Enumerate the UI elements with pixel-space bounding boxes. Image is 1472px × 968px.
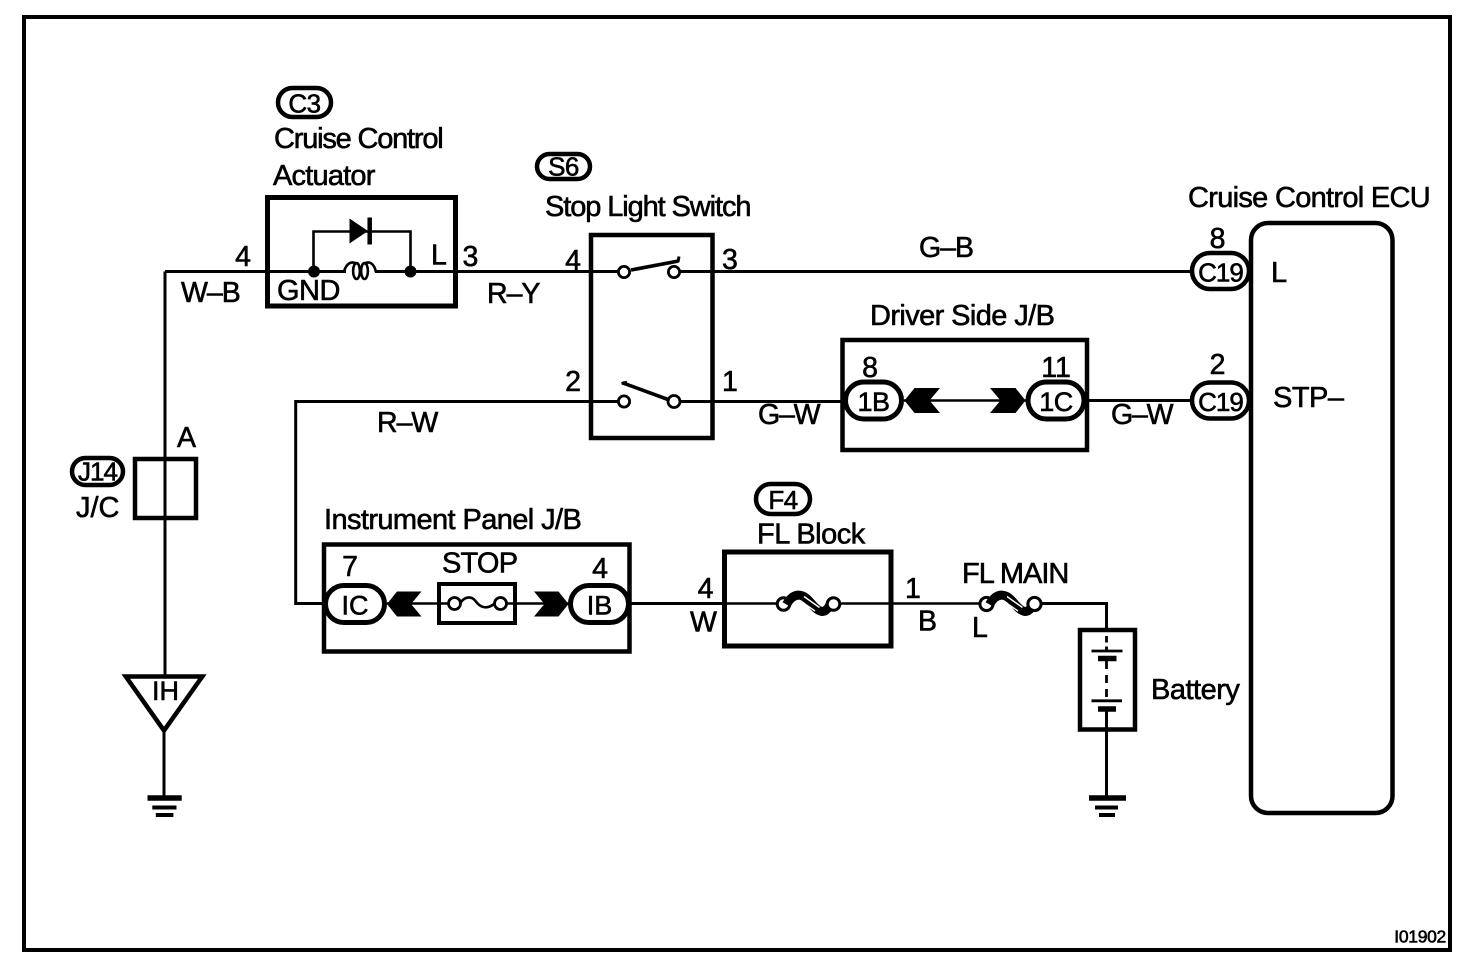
svg-text:R–W: R–W xyxy=(377,407,438,439)
wire FL MAIN to battery xyxy=(1041,604,1107,633)
wire battery to ground xyxy=(1105,710,1108,796)
svg-text:G–B: G–B xyxy=(919,232,973,264)
ground symbol (IH) xyxy=(148,798,182,815)
svg-text:Stop Light Switch: Stop Light Switch xyxy=(545,191,750,223)
switch lower contact circles xyxy=(618,396,629,407)
battery box xyxy=(1080,630,1135,730)
fusible link FL MAIN xyxy=(980,595,1041,611)
svg-text:Cruise Control: Cruise Control xyxy=(274,123,443,155)
connector oval IC xyxy=(326,586,385,623)
arrow right (to IB) xyxy=(534,592,569,617)
arrow left (to IC) xyxy=(387,592,422,617)
diode D (in actuator) xyxy=(350,218,370,245)
svg-text:W: W xyxy=(690,607,717,639)
svg-text:3: 3 xyxy=(463,241,479,273)
wire IH to ground xyxy=(163,730,166,796)
connector oval 1C xyxy=(1028,382,1084,419)
fusible link (FL block) xyxy=(777,595,840,611)
wire through IP J/B xyxy=(387,602,450,605)
instrument panel J/B box xyxy=(324,545,630,652)
connector label C3 xyxy=(278,88,331,119)
svg-text:1: 1 xyxy=(722,366,738,398)
svg-text:J/C: J/C xyxy=(76,492,120,524)
wire W-B vertical down to J/C xyxy=(164,272,167,677)
svg-text:4: 4 xyxy=(565,245,581,277)
svg-text:8: 8 xyxy=(1210,223,1226,255)
wire inside actuator (left segment) xyxy=(267,270,346,273)
wire FL block to FL MAIN xyxy=(891,602,980,605)
svg-text:L: L xyxy=(972,612,988,644)
wire R-W from pin 2 xyxy=(296,402,618,604)
component title Cruise Control Actuator xyxy=(273,123,443,192)
FL block box xyxy=(725,552,892,646)
wire from upper switch right (G-B) xyxy=(680,270,1191,273)
battery top dashed lead xyxy=(1105,636,1108,650)
switch upper lever xyxy=(631,261,679,270)
svg-text:4: 4 xyxy=(698,573,714,605)
connector oval C19 bottom xyxy=(1192,383,1249,419)
svg-text:J14: J14 xyxy=(78,457,117,487)
wire inside actuator (right segment) xyxy=(375,270,458,273)
node right junction dot xyxy=(405,266,417,278)
svg-text:B: B xyxy=(918,606,937,638)
svg-text:1C: 1C xyxy=(1039,387,1073,417)
connector oval C19 top xyxy=(1192,253,1249,289)
battery dashed center line xyxy=(1105,661,1108,697)
battery plate short thick top xyxy=(1098,656,1117,662)
svg-text:8: 8 xyxy=(862,352,878,384)
svg-text:C19: C19 xyxy=(1198,258,1243,288)
ground symbol (battery) xyxy=(1089,798,1126,815)
svg-text:R–Y: R–Y xyxy=(487,278,540,310)
svg-text:4: 4 xyxy=(235,241,251,273)
svg-text:2: 2 xyxy=(1210,349,1226,381)
svg-text:Cruise Control ECU: Cruise Control ECU xyxy=(1188,182,1430,214)
svg-text:G–W: G–W xyxy=(1111,399,1174,431)
connector label S6 xyxy=(537,152,590,182)
fuse STOP box xyxy=(439,584,515,623)
svg-text:IH: IH xyxy=(152,676,179,706)
switch upper contact circles xyxy=(618,266,629,277)
svg-text:A: A xyxy=(177,422,196,454)
switch lower lever xyxy=(623,383,669,400)
connector label F4 xyxy=(756,484,810,515)
svg-text:S6: S6 xyxy=(548,152,579,182)
svg-text:GND: GND xyxy=(277,275,340,307)
stop light switch box xyxy=(591,235,713,438)
svg-text:I01902: I01902 xyxy=(1394,927,1446,947)
driver side J/B box xyxy=(843,340,1088,450)
svg-text:1: 1 xyxy=(905,573,921,605)
svg-text:C3: C3 xyxy=(288,89,320,119)
ground triangle IH xyxy=(126,677,203,731)
svg-text:Battery: Battery xyxy=(1151,674,1240,706)
wire G-W pin1 to 1B xyxy=(680,400,845,403)
svg-text:FL MAIN: FL MAIN xyxy=(962,558,1068,590)
cruise control ECU box xyxy=(1251,223,1393,813)
svg-text:1B: 1B xyxy=(857,387,889,417)
svg-text:4: 4 xyxy=(592,553,608,585)
wire R-Y actuator to switch xyxy=(458,270,620,273)
arrow right (to 1C) xyxy=(990,388,1026,413)
junction connector box A xyxy=(135,459,196,518)
svg-text:Instrument Panel J/B: Instrument Panel J/B xyxy=(324,504,581,536)
cruise control actuator box xyxy=(268,198,456,307)
svg-text:STP–: STP– xyxy=(1273,382,1345,414)
svg-text:G–W: G–W xyxy=(758,399,821,431)
wire between 1B and 1C xyxy=(904,399,1026,402)
svg-text:IB: IB xyxy=(587,591,613,621)
node left junction dot xyxy=(308,266,320,278)
wire 1C to C19 xyxy=(1086,399,1191,402)
svg-text:IC: IC xyxy=(342,591,369,621)
battery plate long bottom xyxy=(1092,699,1123,702)
svg-text:7: 7 xyxy=(342,551,358,583)
svg-text:L: L xyxy=(431,240,447,272)
svg-text:F4: F4 xyxy=(768,485,797,515)
connector oval IB xyxy=(571,586,629,623)
wire inside FL block xyxy=(724,602,777,605)
battery plate short thick bottom xyxy=(1098,706,1116,712)
fuse STOP element xyxy=(449,597,507,609)
wire W-B horizontal (pin 4 to corner) xyxy=(165,270,267,273)
svg-text:FL Block: FL Block xyxy=(757,519,866,551)
svg-text:STOP: STOP xyxy=(442,548,517,580)
connector label J14 xyxy=(72,457,123,487)
battery plate long top xyxy=(1092,650,1123,653)
svg-text:11: 11 xyxy=(1041,352,1071,384)
svg-text:C19: C19 xyxy=(1198,387,1243,417)
wire IB to FL block xyxy=(628,602,724,605)
connector oval 1B xyxy=(846,382,902,419)
svg-text:W–B: W–B xyxy=(181,277,240,309)
arrow left (to 1B) xyxy=(905,388,941,413)
svg-text:2: 2 xyxy=(565,366,581,398)
wire diode branch xyxy=(314,232,411,272)
svg-text:Actuator: Actuator xyxy=(273,160,376,192)
inductor coil L (in actuator) xyxy=(344,262,376,279)
svg-text:L: L xyxy=(1271,257,1287,289)
svg-text:Driver Side J/B: Driver Side J/B xyxy=(870,300,1054,332)
